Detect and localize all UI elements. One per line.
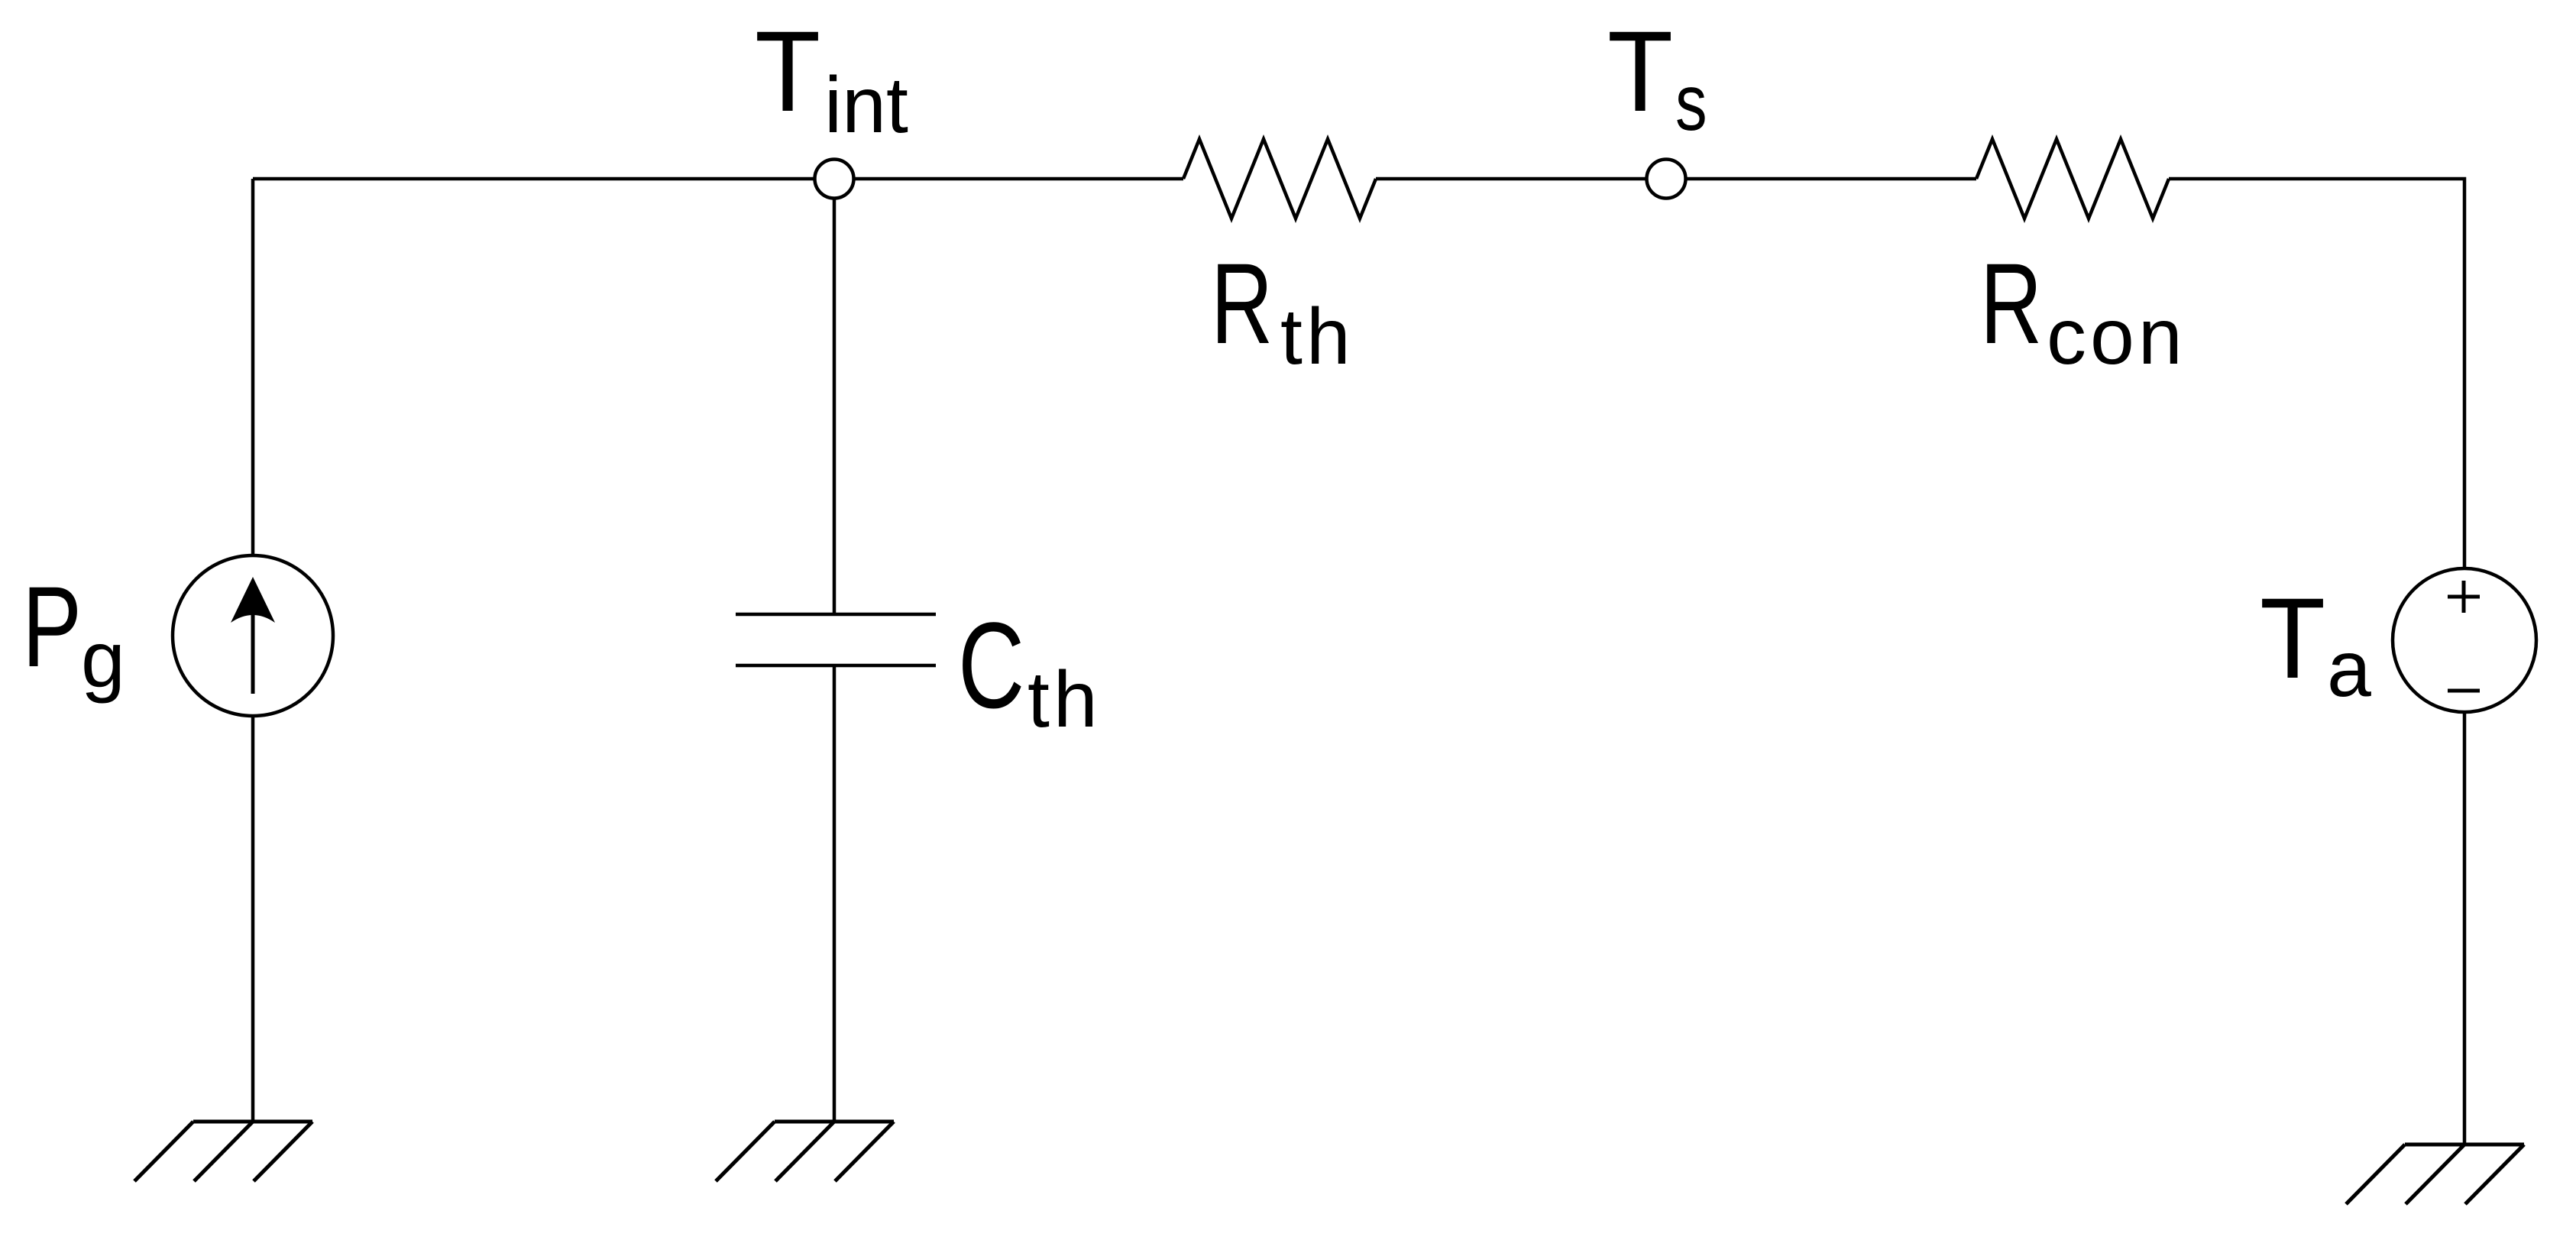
svg-text:T: T [755, 7, 820, 135]
source label Pg [22, 562, 125, 704]
svg-text:P: P [22, 562, 82, 691]
node label Ts [1607, 7, 1707, 147]
wire between Rth and Rcon through node Ts [1376, 177, 1976, 181]
voltage source plus sign [2448, 581, 2480, 613]
wire from Ta bottom to right ground [2463, 712, 2467, 1144]
resistor R_th [1183, 139, 1376, 219]
svg-text:th: th [1027, 656, 1102, 744]
wire top right with corner down to Ta [2169, 179, 2464, 568]
wire left vertical from top wire down to Pg [251, 179, 255, 555]
ground left [134, 1122, 312, 1181]
wire from Pg bottom to left ground [251, 716, 255, 1122]
svg-text:g: g [81, 616, 125, 704]
ground right [2346, 1144, 2524, 1204]
current source P_g arrow [231, 577, 275, 694]
svg-text:int: int [824, 61, 908, 150]
svg-text:T: T [2260, 574, 2325, 702]
wire top horizontal from Pg branch to Rth [253, 177, 1183, 181]
ground middle [716, 1122, 894, 1181]
svg-text:R: R [1980, 240, 2042, 367]
node Ts circle [1647, 160, 1686, 199]
voltage source minus sign [2448, 689, 2480, 693]
capacitor C_th bottom plate [736, 664, 936, 668]
wire from node Tint down to capacitor top plate [833, 179, 837, 614]
source label Ta [2260, 574, 2371, 714]
capacitor C_th top plate [736, 613, 936, 617]
current source P_g circle [173, 555, 333, 716]
node label Tint [755, 7, 908, 150]
svg-text:R: R [1211, 240, 1273, 367]
node Tint circle [815, 160, 854, 199]
svg-text:a: a [2327, 625, 2371, 714]
svg-text:s: s [1675, 58, 1707, 147]
svg-text:T: T [1607, 7, 1673, 135]
svg-text:con: con [2047, 293, 2186, 381]
resistor R_con [1976, 139, 2169, 219]
svg-text:C: C [958, 598, 1024, 734]
svg-text:th: th [1280, 293, 1354, 381]
wire from capacitor bottom plate to middle ground [833, 665, 837, 1122]
resistor label Rcon [1980, 240, 2186, 381]
capacitor label Cth [958, 598, 1102, 744]
resistor label Rth [1211, 240, 1354, 381]
voltage source T_a circle [2393, 568, 2536, 712]
